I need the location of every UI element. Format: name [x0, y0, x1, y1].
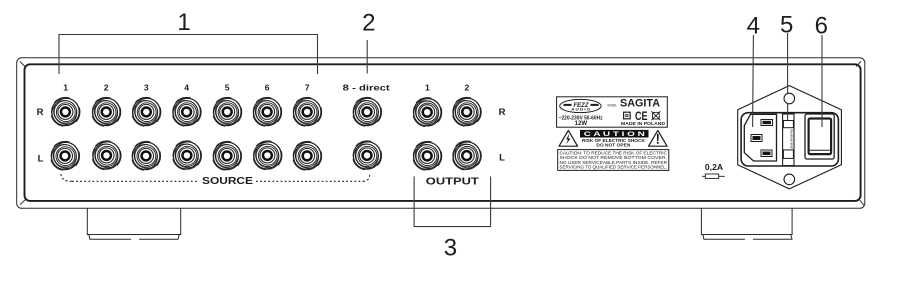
svg-text:3: 3 [144, 83, 149, 93]
svg-text:1: 1 [63, 83, 68, 93]
svg-text:USE ONLY WITH 250V FUSE: USE ONLY WITH 250V FUSE [790, 129, 793, 149]
svg-text:5: 5 [780, 12, 793, 39]
svg-text:SOURCE: SOURCE [202, 176, 254, 187]
svg-text:R: R [499, 107, 506, 118]
svg-text:DO NOT OPEN: DO NOT OPEN [596, 143, 631, 149]
svg-text:R: R [37, 107, 44, 118]
svg-text:4: 4 [747, 13, 760, 40]
svg-text:7: 7 [305, 83, 310, 93]
svg-text:12W: 12W [575, 120, 588, 127]
svg-text:8 - direct: 8 - direct [343, 83, 390, 93]
svg-text:1: 1 [425, 83, 430, 93]
svg-text:6: 6 [815, 13, 828, 40]
svg-text:4: 4 [184, 83, 189, 93]
svg-text:2: 2 [104, 83, 109, 93]
svg-text:3: 3 [444, 235, 457, 262]
svg-text:C A U T I O N: C A U T I O N [584, 131, 646, 138]
svg-text:L: L [499, 152, 505, 163]
svg-text:6: 6 [265, 83, 270, 93]
svg-text:OUTPUT: OUTPUT [426, 176, 479, 187]
svg-text:MADE IN POLAND: MADE IN POLAND [621, 121, 665, 126]
svg-text:1: 1 [177, 9, 190, 36]
svg-text:0,2A: 0,2A [705, 163, 723, 172]
svg-text:2: 2 [465, 83, 470, 93]
svg-text:MODEL: MODEL [607, 104, 617, 108]
svg-text:SAGITA: SAGITA [620, 97, 660, 109]
svg-text:5: 5 [225, 83, 230, 93]
svg-text:2: 2 [362, 10, 375, 37]
svg-text:SERVICING TO QUALIFIED SERVICE: SERVICING TO QUALIFIED SERVICE PERSONNEL… [560, 165, 668, 170]
svg-text:L: L [38, 153, 44, 164]
svg-text:A U D I O: A U D I O [571, 108, 591, 112]
